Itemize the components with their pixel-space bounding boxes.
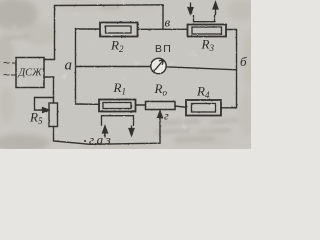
svg-text:а: а [65, 58, 73, 74]
svg-text:в: в [165, 15, 171, 30]
svg-text:ДСЖ: ДСЖ [18, 68, 43, 79]
svg-text:газ: газ [89, 132, 113, 147]
svg-text:г: г [164, 109, 169, 123]
svg-text:~: ~ [3, 68, 10, 82]
svg-text:ВП: ВП [155, 43, 172, 55]
svg-text:б: б [240, 54, 247, 69]
